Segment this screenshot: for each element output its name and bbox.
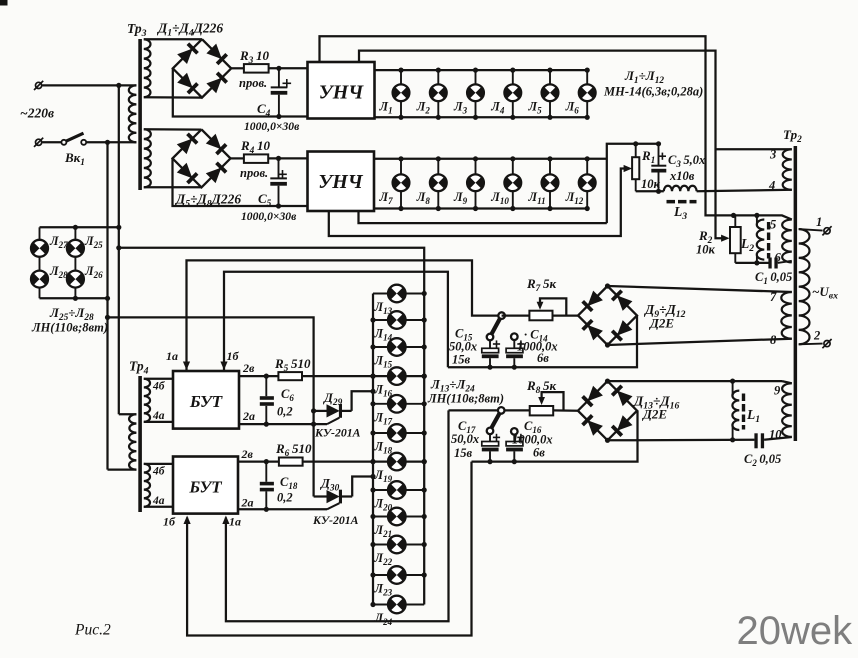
svg-text:Л27: Л27 xyxy=(49,234,68,250)
terminal 1 xyxy=(824,228,830,234)
resistor R3 xyxy=(244,64,269,73)
transformer Tr4 winding 4b-4a 1 xyxy=(144,379,150,422)
terminal 2 xyxy=(824,341,830,347)
lamp L14 xyxy=(373,319,424,321)
svg-text:50,0х: 50,0х xyxy=(451,432,479,446)
wire switch to Tr3 xyxy=(86,141,136,143)
svg-text:10к: 10к xyxy=(696,243,716,257)
capacitor C18 xyxy=(265,462,267,482)
svg-text:4а: 4а xyxy=(152,410,165,422)
svg-text:Л28: Л28 xyxy=(49,264,68,280)
resistor R8 xyxy=(530,406,554,415)
rheostat R8 tap xyxy=(542,392,564,410)
wire R1 bottom xyxy=(636,190,664,192)
lamp L28 xyxy=(31,271,48,288)
svg-text:Д1 ÷Д4 Д226: Д1 ÷Д4 Д226 xyxy=(156,21,223,39)
wire D29 cathode xyxy=(352,391,373,411)
wire bridge1 left down xyxy=(173,68,308,116)
transformer Tr2 winding 3-4 xyxy=(783,149,792,190)
svg-text:R4 10: R4 10 xyxy=(240,138,270,156)
svg-text:~220в: ~220в xyxy=(20,106,54,121)
lamp L1 xyxy=(400,70,402,84)
wire w4a1 xyxy=(144,421,173,423)
svg-text:Л11: Л11 xyxy=(528,190,546,206)
svg-text:Вк1: Вк1 xyxy=(64,150,85,168)
svg-text:Л25: Л25 xyxy=(84,234,103,250)
wire L3 to tap4 xyxy=(697,190,792,192)
svg-text:МН-14(6,3в;0,28а): МН-14(6,3в;0,28а) xyxy=(603,85,703,99)
svg-text:1000,0х: 1000,0х xyxy=(512,433,553,447)
svg-text:4: 4 xyxy=(768,179,775,193)
svg-text:УНЧ: УНЧ xyxy=(319,82,364,104)
lamp L15 xyxy=(373,346,424,348)
capacitor C4 xyxy=(278,68,280,87)
wire 2a but2 xyxy=(238,508,327,510)
wire tap8 xyxy=(608,339,792,345)
wire mains top xyxy=(43,84,137,86)
bus B1 vertical xyxy=(118,85,120,414)
svg-text:R6 510: R6 510 xyxy=(275,441,312,459)
wire column return xyxy=(119,248,424,605)
wire R2 L2 bottom xyxy=(735,262,768,264)
svg-text:~Uвх: ~Uвх xyxy=(812,284,838,302)
svg-text:Рис.2: Рис.2 xyxy=(74,622,111,639)
lamp L13 xyxy=(373,293,424,295)
lamp L7 xyxy=(400,159,402,175)
resistor R4 xyxy=(244,154,268,163)
capacitor C17 xyxy=(489,434,491,441)
lamp L21 xyxy=(373,516,424,518)
svg-text:С3 5,0х: С3 5,0х xyxy=(668,153,705,169)
control unit BUT2 xyxy=(173,457,238,514)
wire row1 bottom xyxy=(375,116,588,118)
wire tap3 xyxy=(716,148,792,150)
wire R4 to UNCH2 xyxy=(268,157,307,159)
transformer Tr4 core xyxy=(138,376,142,512)
svg-text:Л18: Л18 xyxy=(374,440,393,456)
svg-text:БУТ: БУТ xyxy=(188,478,222,497)
transformer Tr4 winding 4b-4a 2 xyxy=(144,464,150,507)
transformer Tr2 winding 7-8 xyxy=(781,292,792,339)
transformer Tr3 primary xyxy=(129,85,137,142)
wire sec2 top xyxy=(144,128,202,131)
svg-text:Л1: Л1 xyxy=(379,100,393,116)
svg-text:Л2: Л2 xyxy=(416,100,431,116)
lamp L20 xyxy=(373,489,424,491)
transformer Tr2 core xyxy=(794,146,798,441)
svg-text:Л23: Л23 xyxy=(374,582,393,598)
capacitor C6 xyxy=(265,376,267,396)
control unit BUT1 xyxy=(173,371,239,429)
svg-text:R1: R1 xyxy=(641,148,655,166)
svg-text:1б: 1б xyxy=(227,349,240,363)
svg-text:С2 0,05: С2 0,05 xyxy=(744,452,781,468)
transformer Tr2 primary xyxy=(799,229,810,344)
lamp L2 xyxy=(437,70,439,84)
svg-text:БУТ: БУТ xyxy=(189,392,223,411)
thyristor D29 xyxy=(314,410,327,412)
wire bridge2 left down xyxy=(173,158,308,206)
transformer Tr3 core xyxy=(138,39,142,190)
terminal bottom mains xyxy=(36,139,42,145)
wire node B xyxy=(187,260,499,371)
svg-text:20wek: 20wek xyxy=(737,609,854,653)
wire w4b2 xyxy=(144,463,173,465)
diode bridge D1-D4 xyxy=(173,39,231,97)
svg-text:Д2Е: Д2Е xyxy=(649,316,674,331)
svg-text:1б: 1б xyxy=(163,515,176,529)
svg-text:ЛН(110в;8вт): ЛН(110в;8вт) xyxy=(31,321,108,335)
wire rail2 xyxy=(359,51,726,239)
svg-text:Л8: Л8 xyxy=(416,190,431,206)
svg-text:9: 9 xyxy=(774,384,781,398)
svg-text:1: 1 xyxy=(816,215,822,229)
diode bridge D9-D12 xyxy=(578,286,637,345)
svg-text:Л21: Л21 xyxy=(374,523,393,539)
wire unch2 out2 xyxy=(329,169,629,237)
svg-text:2а: 2а xyxy=(241,496,254,510)
switch cap C17 xyxy=(498,407,505,414)
switch cap C15 xyxy=(498,312,505,319)
svg-text:Л9: Л9 xyxy=(453,190,468,206)
wire node C xyxy=(224,272,448,371)
lamp L18 xyxy=(373,432,424,434)
lamp L4 xyxy=(512,70,514,84)
lamp L25 xyxy=(74,227,76,240)
svg-text:Л1 ÷Л12: Л1 ÷Л12 xyxy=(624,68,664,86)
capacitor C5 xyxy=(278,158,280,178)
svg-text:0,2: 0,2 xyxy=(277,491,293,505)
svg-text:4б: 4б xyxy=(152,381,166,393)
svg-text:КУ-201А: КУ-201А xyxy=(314,426,361,440)
terminal top mains xyxy=(36,82,42,88)
wire rail1 xyxy=(320,36,792,219)
svg-text:2в: 2в xyxy=(241,447,254,461)
lamp L16 xyxy=(388,367,406,385)
wire sec1 top xyxy=(144,38,202,40)
wire column left rail xyxy=(372,294,374,605)
switch Vk1 xyxy=(61,140,66,145)
svg-text:Тр4: Тр4 xyxy=(129,359,149,377)
inductor L2 xyxy=(757,220,765,260)
svg-text:Л7: Л7 xyxy=(379,190,394,206)
svg-text:L1: L1 xyxy=(746,407,760,425)
wire bus2 to BUT2 1b xyxy=(187,462,471,636)
svg-text:Л5: Л5 xyxy=(528,100,543,116)
svg-text:4а: 4а xyxy=(152,495,165,507)
svg-text:Л16: Л16 xyxy=(374,383,393,399)
wire terminal 2 xyxy=(799,343,823,346)
svg-text:Л17: Л17 xyxy=(374,410,393,426)
svg-text:Л26: Л26 xyxy=(84,264,103,280)
thyristor D30 xyxy=(314,495,327,497)
scan corner artifact xyxy=(0,0,8,6)
svg-text:1000,0×30в: 1000,0×30в xyxy=(244,120,299,133)
svg-text:4б: 4б xyxy=(152,466,166,478)
wire bridge4 right down xyxy=(472,411,638,462)
svg-text:2в: 2в xyxy=(242,361,255,375)
potentiometer R1 xyxy=(632,157,639,179)
amplifier UNCH1 xyxy=(308,62,375,119)
svg-text:Л19: Л19 xyxy=(374,468,393,484)
svg-text:Д29: Д29 xyxy=(323,390,343,408)
svg-text:Л3: Л3 xyxy=(453,100,468,116)
resistor R5 xyxy=(278,372,302,380)
wire w4a2 xyxy=(144,506,173,508)
wire tap7 xyxy=(608,286,792,292)
wire group bottom xyxy=(40,297,108,299)
svg-text:пров.: пров. xyxy=(239,76,267,90)
svg-text:Тр3: Тр3 xyxy=(127,21,147,39)
wire group top xyxy=(40,226,119,228)
lamp L5 xyxy=(549,70,551,84)
wire tap10 right xyxy=(764,437,792,440)
svg-text:6в: 6в xyxy=(533,446,545,460)
transformer Tr3 secondary 1 xyxy=(144,39,151,97)
wire node R1 top xyxy=(607,144,659,223)
svg-text:УНЧ: УНЧ xyxy=(318,171,363,193)
inductor L3 xyxy=(664,186,697,192)
wire bridge1 right xyxy=(231,67,244,69)
svg-text:пров.: пров. xyxy=(240,166,268,180)
transformer Tr2 winding 5-6 xyxy=(782,220,792,263)
svg-text:50,0х: 50,0х xyxy=(449,340,477,354)
lamp L27 xyxy=(39,227,41,240)
wire row1 top xyxy=(375,69,588,71)
svg-text:Д2Е: Д2Е xyxy=(642,407,667,422)
transformer Tr2 winding 9-10 xyxy=(782,383,792,437)
resistor R7 xyxy=(529,311,552,321)
svg-text:ЛН(110в;8вт): ЛН(110в;8вт) xyxy=(427,392,504,406)
lamp L23 xyxy=(373,574,424,576)
diode bridge D13-D16 xyxy=(578,381,637,440)
svg-text:15в: 15в xyxy=(454,446,473,460)
wire Tr4 primary bottom xyxy=(108,468,137,470)
svg-text:Д30: Д30 xyxy=(320,476,340,494)
wire bridge2 right xyxy=(231,157,244,159)
svg-text:L3: L3 xyxy=(673,204,687,222)
wire 2a but1 xyxy=(239,423,327,425)
wire terminal 1 xyxy=(799,229,823,231)
wire row2 top xyxy=(374,158,607,160)
svg-text:Л22: Л22 xyxy=(374,551,393,567)
wire 2v row L16 xyxy=(239,375,424,377)
wire to switch xyxy=(43,141,62,143)
svg-text:2а: 2а xyxy=(242,409,255,423)
lamp L10 xyxy=(512,159,514,175)
svg-text:КУ-201А: КУ-201А xyxy=(312,513,359,527)
svg-text:L2: L2 xyxy=(740,236,754,254)
capacitor C15 xyxy=(489,340,491,348)
svg-text:Тр2: Тр2 xyxy=(783,127,802,145)
wire unch2 out1 xyxy=(359,211,607,223)
inductor L1 xyxy=(732,381,734,396)
wire row2 bottom xyxy=(374,207,587,209)
potentiometer R2 xyxy=(730,227,741,253)
svg-text:2: 2 xyxy=(813,329,820,343)
diode bridge D5-D8 xyxy=(173,129,231,187)
svg-text:3: 3 xyxy=(769,148,776,162)
wire B0 branch xyxy=(108,317,314,496)
svg-text:С1 0,05: С1 0,05 xyxy=(755,270,792,286)
capacitor C16 xyxy=(511,428,518,435)
capacitor C14 xyxy=(511,333,518,340)
wire 2v row L19 xyxy=(238,460,424,462)
svg-text:5: 5 xyxy=(770,218,776,232)
wire w4b1 xyxy=(144,378,173,380)
wire tap10 left xyxy=(608,439,755,442)
lamp L26 xyxy=(67,271,84,288)
rheostat R7 tap xyxy=(540,298,566,315)
svg-text:1000,0×30в: 1000,0×30в xyxy=(241,210,296,223)
svg-text:Л10: Л10 xyxy=(490,190,509,206)
svg-text:R7 5к: R7 5к xyxy=(526,276,556,294)
capacitor C1 xyxy=(768,258,771,269)
lamp L3 xyxy=(475,70,477,84)
svg-text:1а: 1а xyxy=(229,515,241,529)
lamp L9 xyxy=(475,159,477,175)
wire D30 cathode xyxy=(352,477,373,497)
svg-text:Л4: Л4 xyxy=(490,100,505,116)
svg-text:Л6: Л6 xyxy=(565,100,580,116)
lamp L12 xyxy=(586,159,588,175)
svg-text:Л24: Л24 xyxy=(374,611,393,627)
wire R8 node to BUT2 1a xyxy=(226,410,449,621)
svg-text:6в: 6в xyxy=(537,351,549,365)
svg-text:С18: С18 xyxy=(280,475,298,491)
lamp L19 xyxy=(388,453,406,471)
transformer Tr4 primary xyxy=(129,414,136,469)
svg-text:Л12: Л12 xyxy=(565,190,584,206)
lamp L24 xyxy=(373,604,424,606)
wire R8 node xyxy=(449,409,499,411)
wire R7 node xyxy=(502,314,530,316)
lamp L22 xyxy=(373,544,424,546)
svg-text:С6: С6 xyxy=(281,387,294,403)
wire tap9 xyxy=(608,380,783,382)
amplifier UNCH2 xyxy=(308,152,375,212)
svg-text:1а: 1а xyxy=(166,349,178,363)
svg-text:15в: 15в xyxy=(452,353,471,367)
svg-text:х10в: х10в xyxy=(669,169,695,183)
lamp L8 xyxy=(437,159,439,175)
resistor R6 xyxy=(279,458,303,466)
bus B0 vertical xyxy=(106,142,108,469)
svg-text:Л15: Л15 xyxy=(374,354,393,370)
wire Tr4 primary top xyxy=(119,413,137,415)
wire sec1 bottom xyxy=(144,96,202,99)
lamp L6 xyxy=(586,70,588,84)
wire bridge3 right down xyxy=(448,316,637,368)
lamp L11 xyxy=(549,159,551,175)
capacitor C3 xyxy=(658,144,660,166)
lamp L17 xyxy=(373,403,424,405)
wire R3 to UNCH1 xyxy=(269,67,308,69)
svg-text:0,2: 0,2 xyxy=(277,405,293,419)
wire sec2 bottom xyxy=(144,186,202,188)
capacitor C2 xyxy=(754,433,757,448)
transformer Tr3 secondary 2 xyxy=(144,129,151,187)
